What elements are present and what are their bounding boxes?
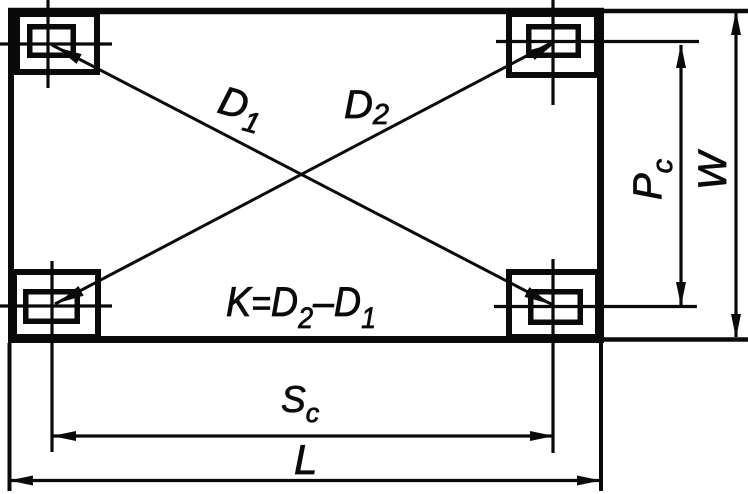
centerline horizontal bottom-right / extension line Pc bottom bbox=[494, 305, 697, 308]
arrowhead Pc bottom bbox=[676, 282, 686, 306]
slot bottom-left bbox=[26, 292, 78, 322]
plate outline right edge bbox=[597, 8, 604, 343]
diagonal D2 line (bottom-left to top-right) bbox=[55, 42, 553, 304]
corner pad bottom-left bbox=[14, 272, 98, 337]
dimension line L bbox=[10, 479, 600, 482]
corner pad top-left bbox=[17, 14, 97, 72]
arrowhead Sc left bbox=[52, 431, 76, 441]
centerline vertical top-left bbox=[46, 0, 49, 88]
extension line L right (right edge extended down) bbox=[599, 343, 603, 491]
centerline horizontal top-right / extension line Pc top bbox=[496, 40, 699, 43]
arrowhead W top bbox=[731, 11, 741, 35]
corner pad bottom-right bbox=[509, 272, 598, 337]
centerline horizontal bottom-left bbox=[0, 304, 112, 307]
arrowhead W bottom bbox=[731, 314, 741, 338]
centerline vertical bottom-right / extension line Sc right bbox=[551, 259, 554, 453]
svg-text:W: W bbox=[691, 149, 735, 190]
svg-text:L: L bbox=[294, 436, 317, 483]
arrowhead D2 top-right bbox=[529, 38, 557, 60]
dimension line Sc bbox=[53, 434, 553, 437]
slot top-left bbox=[30, 27, 74, 56]
corner pad top-right bbox=[509, 14, 597, 75]
extension line W top (top edge extended right) bbox=[604, 9, 748, 14]
centerline vertical bottom-left / extension line Sc left bbox=[50, 261, 53, 452]
extension line L left (left edge extended down) bbox=[8, 343, 12, 491]
arrowhead D1 bottom-right bbox=[524, 287, 552, 309]
diagonal D1 line (top-left to bottom-right) bbox=[52, 45, 553, 305]
arrowhead L right bbox=[577, 476, 601, 486]
plate outline left edge bbox=[8, 8, 14, 343]
arrowhead L left bbox=[9, 476, 33, 486]
slot bottom-right bbox=[531, 292, 581, 323]
arrowhead D2 bottom-left bbox=[55, 286, 83, 308]
arrowhead Pc top bbox=[676, 44, 686, 68]
extension line W bottom (bottom edge extended right) bbox=[604, 337, 748, 342]
arrowhead D1 top-left bbox=[53, 42, 81, 64]
slot top-right bbox=[529, 27, 579, 56]
centerline vertical top-right bbox=[551, 0, 554, 105]
plate outline bottom edge bbox=[8, 336, 604, 343]
dimension line W bbox=[734, 12, 737, 337]
arrowhead Sc right bbox=[530, 431, 554, 441]
plate outline top edge bbox=[8, 8, 604, 15]
centerline horizontal top-left bbox=[0, 42, 112, 45]
dimension line Pc bbox=[679, 45, 682, 305]
